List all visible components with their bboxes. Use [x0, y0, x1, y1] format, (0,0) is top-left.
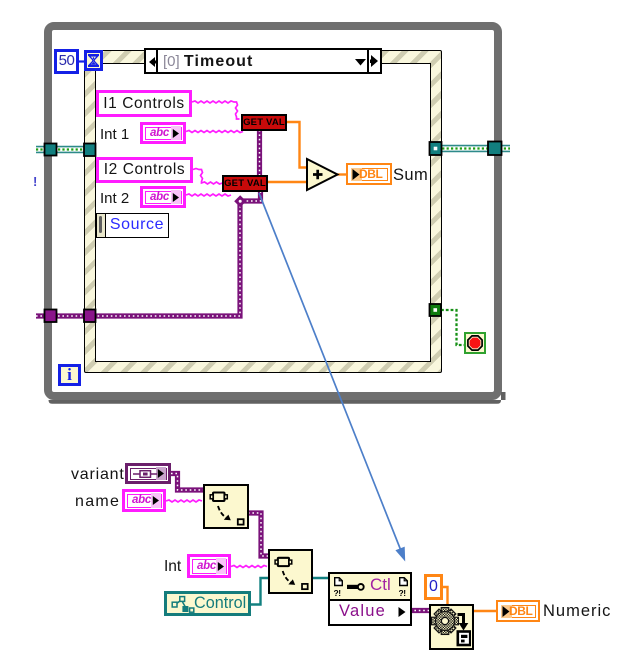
- svg-text:?!: ?!: [399, 588, 406, 597]
- svg-text:?!: ?!: [334, 588, 341, 597]
